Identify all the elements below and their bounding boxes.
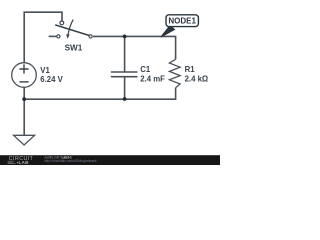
- svg-text:V1: V1: [40, 66, 50, 75]
- svg-text:SW1: SW1: [65, 43, 83, 52]
- svg-text:NODE1: NODE1: [168, 17, 196, 26]
- svg-text:2.4 kΩ: 2.4 kΩ: [185, 75, 209, 84]
- svg-text:C1: C1: [140, 65, 151, 74]
- svg-text:http://circuitlab.com/c83dhaja: http://circuitlab.com/c83dhajamhauk: [44, 159, 97, 163]
- svg-text:2.4 mF: 2.4 mF: [140, 75, 165, 84]
- svg-text:6.24 V: 6.24 V: [40, 75, 63, 84]
- svg-text:▪LAB: ▪LAB: [17, 160, 30, 165]
- svg-text:R1: R1: [185, 65, 196, 74]
